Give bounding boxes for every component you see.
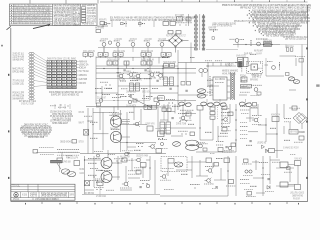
module box row1 n4 dot <box>105 54 106 55</box>
matrix cell r4c5 dot <box>69 70 70 71</box>
title cell text 2a <box>30 193 38 196</box>
wire right link c <box>258 124 266 126</box>
box U3 <box>231 143 236 147</box>
cluster I9a dots <box>138 146 143 147</box>
border bottom zone tick 3 <box>111 202 113 205</box>
notes block B line 7 <box>73 20 80 23</box>
matrix right stub 4 <box>77 70 80 72</box>
plug coil pair 4a <box>239 102 245 106</box>
cluster H12a parts1 <box>240 105 249 107</box>
border right zone letter A <box>306 47 307 49</box>
wire chroma bus <box>118 85 178 87</box>
revision table row 4 text <box>14 12 50 15</box>
cluster K5c parts2 <box>128 173 139 175</box>
resistor R99 <box>250 53 256 55</box>
wire mid v2 <box>143 88 145 104</box>
transistor Q403 emitter lead <box>138 125 140 127</box>
wire luma b <box>150 92 178 94</box>
note 15 number <box>259 32 260 33</box>
matrix cell r1c1 dot <box>49 61 50 62</box>
revision table divider v2 <box>71 4 73 26</box>
svg-text:DO B85 WM: DO B85 WM <box>85 192 94 195</box>
delay line DL2 <box>244 58 249 67</box>
hv top label a <box>222 70 238 73</box>
note 11 number <box>253 25 254 26</box>
resistor R96 <box>134 149 141 151</box>
note 17 number <box>263 35 264 36</box>
aux label row 1 <box>212 23 236 26</box>
svg-text:AB8S9 B72L: AB8S9 B72L <box>79 74 87 77</box>
transistor Q503 emitter lead <box>257 121 259 123</box>
Q401 emitter line <box>113 123 118 125</box>
transistor Q501 <box>181 116 185 120</box>
notes block A line 8 <box>54 19 71 23</box>
fan wire 7 <box>34 72 46 77</box>
title block vdiv f <box>68 192 70 198</box>
wire psu link e <box>127 146 136 148</box>
revision table row line 8 <box>10 23 53 25</box>
resistor chain R301 label <box>209 27 217 30</box>
wire audio link f <box>128 177 140 179</box>
matrix cell r3c6 <box>72 66 76 68</box>
cluster mid-top box a <box>96 30 101 33</box>
revision table row 2 text <box>14 7 50 10</box>
module box row2 n7 <box>170 64 175 68</box>
note 2 text <box>254 11 308 14</box>
module box row1 n5 <box>113 53 118 57</box>
matrix cell r3c1 <box>47 66 51 68</box>
matrix right stub 7 <box>77 82 80 84</box>
matrix cell r1c2 <box>52 60 56 62</box>
matrix cell r5c4 <box>62 72 66 74</box>
matrix cell r7c1 <box>47 78 51 80</box>
wire agc v <box>301 45 303 77</box>
transistor Q501 collector lead <box>184 115 186 117</box>
wire right link f <box>266 150 269 152</box>
wire vdrop l <box>158 57 160 64</box>
cluster P3 parts a <box>221 108 230 110</box>
junction node 2 <box>149 78 150 79</box>
cluster H12a parts3 <box>241 113 249 115</box>
flat module label <box>242 85 251 88</box>
wire mid v1 <box>101 86 103 100</box>
parts list box 4 <box>82 15 86 17</box>
border top zone tick 4 <box>111 0 113 2</box>
resistor chain R301 body <box>210 29 218 31</box>
notes block A line 7 <box>54 17 71 21</box>
rail V1 <box>95 57 97 105</box>
box H7 drop wire <box>199 110 201 140</box>
cluster I8d dots <box>158 138 163 139</box>
terminal strip label <box>63 161 71 164</box>
svg-text:HXX4L FIVH UHL: HXX4L FIVH UHL <box>222 72 236 75</box>
bus wire main <box>96 68 196 70</box>
matrix cell r1c6 <box>72 60 76 62</box>
wire to border a <box>305 117 308 119</box>
parts list box 2 label <box>87 10 97 13</box>
border bottom zone number 4 <box>130 203 131 205</box>
parts list box 2 <box>82 10 86 12</box>
light rail F18 <box>96 100 150 102</box>
connector pin 15 number <box>30 94 33 97</box>
resistor R118 <box>152 88 158 90</box>
matrix cell r5c5 dot <box>69 73 70 74</box>
module box row2 n6 dot <box>166 65 167 66</box>
junction node 14 <box>117 162 118 163</box>
connector pin 9 number <box>30 76 33 79</box>
svg-text:PVZS0 HM9L 4N: PVZS0 HM9L 4N <box>141 59 154 62</box>
notes block A line 5 <box>54 12 71 16</box>
resistor R85 <box>220 132 228 134</box>
matrix cell r5c4 dot <box>64 73 65 74</box>
rail V5 <box>207 62 209 86</box>
flat module box <box>241 85 252 88</box>
flyback pin right 3 <box>227 91 230 93</box>
matrix right label 5 <box>79 74 87 77</box>
border left edge <box>10 28 12 202</box>
notes title line 2 <box>240 6 311 10</box>
Q401 label <box>112 113 122 116</box>
transformer T401 winding R <box>166 122 171 134</box>
speaker box L3a inner <box>287 167 291 170</box>
label L3e line2 <box>292 195 303 198</box>
transistor Q101 <box>102 43 106 47</box>
plug coil pair 1b <box>185 103 191 107</box>
capacitor C911 plate1 <box>215 186 217 188</box>
connector pin 10 <box>29 79 34 81</box>
agc wire to border <box>280 44 308 46</box>
matrix cell r3c2 dot <box>54 67 55 68</box>
bus node 3 <box>132 68 133 69</box>
resistor R84 <box>205 131 212 133</box>
revision table rev-letter column <box>13 4 15 24</box>
top small cluster 2 dots <box>124 23 127 24</box>
transformer T202 winding L <box>164 77 168 86</box>
wire P7 v <box>283 126 285 134</box>
notes block B line 1 <box>73 7 80 10</box>
cluster H12a parts2 <box>240 109 250 111</box>
capacitor C99 plate1 <box>225 146 227 148</box>
cluster P3 box a <box>228 112 233 116</box>
transistor Q606 emitter lead <box>211 172 213 174</box>
transistor Q404 base lead <box>149 146 151 148</box>
svg-text:RP6M GIUA0: RP6M GIUA0 <box>141 50 154 53</box>
wire right v c <box>265 118 267 142</box>
tuner ic dot <box>254 66 255 67</box>
stage 1 label <box>101 38 109 41</box>
matrix cell r5c3 <box>57 72 61 74</box>
svg-text:S7GI: S7GI <box>79 141 84 144</box>
matrix cell r8c2 dot <box>54 81 55 82</box>
psu rail c <box>120 110 122 152</box>
module box row1 n4 <box>104 53 109 57</box>
hv winding loop 11 <box>231 95 233 97</box>
matrix cell r6c3 <box>57 75 61 77</box>
flyback pin right 2 <box>227 85 230 87</box>
module box row2 n2 <box>113 61 118 65</box>
hv winding loop 1 <box>231 73 233 75</box>
plug coil pair 3 drop <box>219 99 221 103</box>
cluster J5 row1 <box>57 149 79 151</box>
fan wire 1 <box>34 54 46 62</box>
title bottom row text <box>35 197 57 201</box>
capacitor C92 plate1 <box>156 80 158 82</box>
bridge BR1 diag 1 <box>84 130 89 136</box>
tuner label top2 <box>256 52 262 55</box>
speaker box L3c <box>280 182 288 187</box>
transistor Q204 emitter lead <box>122 77 124 79</box>
matrix cell r6c1 <box>47 75 51 77</box>
title block vdiv a <box>27 184 29 192</box>
mid box row A <box>168 31 173 34</box>
title block vdiv d <box>28 192 30 198</box>
module A201 label <box>263 40 272 43</box>
matrix cell r9c5 <box>67 84 71 86</box>
revision table row line 4 <box>10 13 53 15</box>
matrix cell r7c3 <box>57 78 61 80</box>
signal list line 5 <box>50 120 71 123</box>
speaker coil J6b <box>67 171 75 176</box>
Q107 base parts <box>230 38 236 40</box>
matrix bottom cell c4 <box>62 87 66 89</box>
matrix cell r7c6 <box>72 78 76 80</box>
tuner caption line2 <box>252 76 262 79</box>
top small cluster 2 box <box>121 23 124 25</box>
revision table row 6 text <box>14 17 50 20</box>
wire out v c <box>199 160 201 176</box>
rail V2 <box>117 57 119 110</box>
Q203 parts upper <box>251 84 262 86</box>
matrix cell r1c6 dot <box>74 61 75 62</box>
transistor Q603 emitter lead <box>140 161 142 163</box>
svg-text:7CCCI 584J VVK: 7CCCI 584J VVK <box>163 19 176 22</box>
notes block B line 4 <box>73 14 80 17</box>
matrix cell r2c4 <box>62 63 66 65</box>
wire audio v b <box>117 156 119 180</box>
fan wire 8 <box>34 75 46 80</box>
wire spk link d <box>288 184 295 186</box>
coil L202 ellipse <box>293 80 299 84</box>
matrix cell r1c1 <box>47 60 51 62</box>
cluster K5a label <box>120 155 130 158</box>
plug coil pair 1a <box>179 102 185 106</box>
connector pin 12 <box>29 85 34 87</box>
plug coil pair 4 cross <box>240 102 251 106</box>
wire label drop 3 <box>139 21 141 27</box>
note 4 number <box>247 15 248 16</box>
label col K4b <box>80 172 85 175</box>
emitter resistor row <box>111 128 120 130</box>
connector pin 8 number <box>30 73 33 76</box>
drop wire J1-2 <box>59 104 61 109</box>
svg-text:P4ZWB VL6NX: P4ZWB VL6NX <box>82 22 94 25</box>
title block vdiv b <box>37 184 39 192</box>
matrix cell r4c6 dot <box>74 70 75 71</box>
title bottom left text <box>13 198 20 201</box>
transistor Q501 emitter lead <box>184 119 186 121</box>
yoke coil lower hatch <box>199 94 205 97</box>
parts list box 5 <box>82 18 86 20</box>
transformer T401 core 2 <box>161 127 171 129</box>
transistor Q605 base lead <box>160 176 162 178</box>
psu rail d <box>126 112 128 150</box>
rounded module box F15 <box>158 96 165 101</box>
cluster L1a parts <box>242 163 252 165</box>
label T201 <box>126 90 136 93</box>
wire vert v f <box>229 104 231 123</box>
cluster H6 dots <box>179 120 187 122</box>
agc parts left <box>240 39 245 41</box>
module box row2 n4 <box>141 61 146 65</box>
degauss coil upper <box>186 140 199 146</box>
module row1 stub 6 <box>120 56 122 58</box>
yoke coil upper <box>197 89 206 93</box>
module row2 label b <box>141 59 154 62</box>
wire audio v f <box>149 156 151 180</box>
cluster I8d box <box>158 131 165 137</box>
tuner caption line1 <box>252 73 263 76</box>
border top zone tick 7 <box>216 0 218 2</box>
border bottom zone number 1 <box>25 203 26 205</box>
psu caption text <box>136 155 148 158</box>
matrix cell r3c3 <box>57 66 61 68</box>
title cell text 1 <box>22 194 27 197</box>
wire fb part b <box>241 86 247 88</box>
Q402 emitter line <box>113 139 118 141</box>
psu bottom wire <box>80 153 166 155</box>
wire spk link e <box>256 192 265 194</box>
svg-text:8ZHRR NT6MH: 8ZHRR NT6MH <box>209 27 217 30</box>
border top tick z3 <box>97 0 99 4</box>
connector pin 4 <box>29 61 34 63</box>
bridge diamond cross 2 <box>172 38 179 44</box>
drop wire J1-3 <box>64 104 66 109</box>
note 17 text <box>266 34 294 37</box>
cluster I10a transistor <box>97 154 100 157</box>
border bottom zone tick 5 <box>181 202 183 205</box>
resistor R97 <box>96 169 103 171</box>
svg-text:3SW ARYP: 3SW ARYP <box>256 52 262 55</box>
svg-text:9UL6C: 9UL6C <box>80 172 85 175</box>
svg-text:56RF9: 56RF9 <box>70 194 75 197</box>
IF module T102 box <box>186 17 191 21</box>
revision table row 6 rev letter <box>11 17 12 18</box>
note 9 text <box>252 22 308 25</box>
svg-text:PSU UTN V5XST 9Z XJTCT: PSU UTN V5XST 9Z XJTCT <box>166 34 186 37</box>
transistor Q604 base lead <box>122 183 124 185</box>
matrix right label 4 <box>79 70 89 73</box>
cluster mid-top label <box>95 27 104 30</box>
matrix right label 3 <box>79 66 86 69</box>
wire vdrop k <box>143 57 145 61</box>
parts L2c <box>265 190 274 192</box>
matrix bottom cell c1 <box>47 87 51 89</box>
matrix cell r6c4 <box>62 75 66 77</box>
wire spk v b <box>269 156 271 184</box>
cluster K6g parts <box>226 185 236 187</box>
box stack H8 n3 <box>210 116 215 119</box>
cluster I10a parts <box>94 150 103 152</box>
text block F11 line1 <box>225 63 234 66</box>
transistor Q605 collector lead <box>165 174 167 176</box>
top small cluster 3 dots <box>142 23 145 24</box>
junction S1 <box>101 92 102 93</box>
hv winding loop 5 <box>231 82 233 84</box>
capacitor C99 plate2 <box>226 146 228 148</box>
note 7 text <box>256 19 306 22</box>
note 13 text <box>262 28 300 31</box>
matrix cell r8c5 <box>67 81 71 83</box>
title top band text <box>12 186 21 188</box>
matrix cell r3c4 dot <box>64 67 65 68</box>
border top zone tick 6 <box>181 0 183 2</box>
revision table row 5 text <box>14 14 50 17</box>
module box row1 n2 <box>89 53 94 57</box>
capacitor C911 plate2 <box>216 186 218 188</box>
column H9 parts a <box>221 111 230 113</box>
label U4 <box>176 123 187 126</box>
wire out v a <box>167 163 169 176</box>
resistor R120 <box>116 94 124 96</box>
note paragraph line 7 <box>24 134 48 137</box>
matrix cell r3c4 <box>62 66 66 68</box>
signal list line 1 <box>50 111 72 114</box>
cluster P8 parts a <box>190 184 200 186</box>
transistor Q207 base lead <box>148 74 150 76</box>
connector F14d part <box>251 107 257 109</box>
hv module box <box>241 77 247 82</box>
Q204 label <box>119 79 125 82</box>
transformer T201 core 3 <box>130 88 139 90</box>
matrix cell r6c2 <box>52 75 56 77</box>
capacitor C910 plate1 <box>139 186 141 188</box>
Q203 parts lower <box>251 94 261 96</box>
bridge diamond outline <box>169 35 182 47</box>
ladder element L3 right <box>202 24 205 26</box>
Q206 label <box>136 79 142 82</box>
terminal strip bar <box>51 160 62 163</box>
note 1 number <box>249 10 250 11</box>
box J6b <box>74 161 80 166</box>
connector pin 5 <box>29 64 34 66</box>
module box row2 n6 <box>164 64 169 68</box>
matrix cell r1c3 dot <box>59 61 60 62</box>
Q401 output wire <box>122 121 130 123</box>
wire out v e <box>235 156 237 196</box>
resistor R131 <box>218 135 228 137</box>
Q207 label <box>150 77 156 80</box>
wire vdrop f <box>190 43 192 63</box>
notes block A line 4 <box>54 10 71 14</box>
diode D701 bar <box>269 186 271 190</box>
revision table row 4 rev letter <box>11 12 12 13</box>
Q402 output wire <box>122 136 130 138</box>
resistor R103 <box>129 40 135 42</box>
wire spk v a <box>255 160 257 170</box>
box stack H8 n2 <box>210 112 215 115</box>
transistor Q206 emitter lead <box>139 77 141 79</box>
capacitor C94 plate2 <box>130 95 132 97</box>
top small cluster 3 box <box>139 23 142 25</box>
ladder element L6 left <box>195 36 198 38</box>
connector pin label 16 <box>13 97 25 100</box>
wire audio v d <box>131 158 133 171</box>
wire vdrop e <box>185 63 187 82</box>
connector pin 3 number <box>30 58 33 61</box>
cluster I8c box <box>147 126 153 131</box>
note paragraph line 2 <box>21 125 51 128</box>
module box row1 n10 dot <box>168 54 169 55</box>
